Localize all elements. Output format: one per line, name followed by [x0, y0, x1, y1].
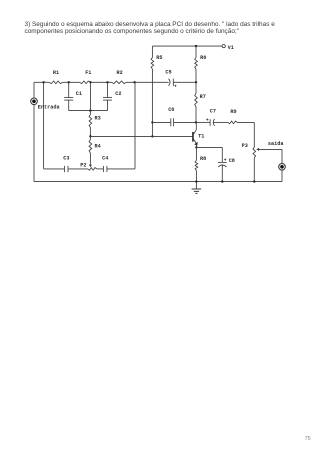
capacitor C6 [152, 107, 196, 126]
svg-text:R8: R8 [200, 156, 206, 162]
capacitor C4 [102, 156, 108, 173]
fuse F1 [80, 70, 92, 84]
svg-text:R5: R5 [156, 55, 162, 61]
svg-text:R4: R4 [95, 144, 101, 150]
terminal V1 [222, 45, 234, 51]
svg-text:T1: T1 [198, 134, 204, 140]
node C2 top [106, 81, 108, 83]
svg-text:P2: P2 [80, 163, 86, 169]
wire inner loop left column [43, 82, 45, 169]
resistor R3 [89, 111, 101, 137]
svg-text:C1: C1 [76, 91, 82, 97]
wire left outer column [33, 104, 35, 181]
node R6/C5/R7 junction [195, 81, 197, 83]
capacitor C7 [196, 109, 216, 126]
node P3/ground rail junction [253, 180, 255, 182]
wire C3-P2 [68, 168, 87, 170]
wire V1 supply rail [152, 45, 222, 47]
wire C4-loop right column [107, 82, 135, 169]
capacitor C3 [63, 156, 69, 173]
node C1 top [68, 81, 70, 83]
wire loop-C3 [44, 168, 65, 170]
svg-text:R6: R6 [200, 55, 206, 61]
resistor R8 [195, 147, 206, 181]
wire F1-R2 [91, 81, 112, 83]
wire base line [90, 135, 192, 137]
resistor R9 [213, 109, 254, 124]
potentiometer P3 wiper arrow [256, 148, 282, 151]
resistor R2 [112, 70, 127, 84]
wire R1-C1 [63, 81, 80, 83]
node C1/C2/R3 junction [89, 109, 91, 111]
transistor T1 [192, 122, 204, 147]
wire R5-to-base segment [151, 122, 153, 136]
node V1-rail/R6 junction [195, 45, 197, 47]
node R5/base-line junction [151, 135, 153, 137]
node C6/C7/collector junction [195, 121, 197, 123]
node R2/loop-column junction [133, 81, 135, 83]
svg-text:C6: C6 [168, 107, 174, 113]
svg-text:C7: C7 [210, 109, 216, 115]
resistor R1 [49, 70, 63, 84]
ground [192, 182, 202, 194]
heading text [25, 22, 291, 36]
svg-text:R7: R7 [200, 94, 206, 100]
svg-text:V1: V1 [228, 45, 234, 51]
potentiometer P2 wiper arrow [89, 165, 92, 168]
node F1/R3 junction [89, 81, 91, 83]
potentiometer P2 [80, 163, 97, 171]
resistor R5 [151, 46, 162, 122]
resistor R6 [195, 46, 207, 82]
svg-text:R1: R1 [53, 70, 59, 76]
potentiometer P3 [242, 122, 256, 181]
resistor R4 [89, 136, 101, 164]
svg-text:R2: R2 [117, 70, 123, 76]
wire emitter-C8 [196, 147, 222, 162]
svg-text:C4: C4 [102, 156, 108, 162]
capacitor C8 [218, 158, 235, 182]
terminal Entrada [31, 82, 60, 110]
wire bottom ground rail [34, 181, 282, 183]
svg-text:Entrada: Entrada [38, 105, 60, 111]
wire input top rail [34, 81, 49, 83]
node C8/ground rail junction [221, 180, 223, 182]
capacitor C5 [165, 70, 196, 87]
node R8/ground rail junction [195, 180, 197, 182]
svg-text:C8: C8 [229, 158, 235, 164]
svg-text:C5: C5 [165, 70, 171, 76]
wire R3 top segment [89, 82, 91, 110]
node R5/C6 junction [151, 121, 153, 123]
page number 75 [305, 436, 311, 442]
svg-text:R9: R9 [230, 109, 236, 115]
wire R2-C5 [127, 81, 169, 83]
terminal saida [268, 141, 285, 182]
svg-text:P3: P3 [242, 143, 248, 149]
capacitor C1 [64, 82, 90, 110]
capacitor C2 [90, 82, 121, 110]
node R3/R4/base junction [89, 135, 91, 137]
node entrada/loop junction [42, 81, 44, 83]
svg-text:C3: C3 [63, 156, 69, 162]
svg-text:R3: R3 [95, 115, 101, 121]
svg-text:saida: saida [268, 141, 284, 147]
svg-text:F1: F1 [85, 70, 91, 76]
svg-text:C2: C2 [115, 91, 121, 97]
wire P2-C4 [97, 168, 103, 170]
resistor R7 [195, 82, 206, 122]
node emitter junction [195, 146, 197, 148]
